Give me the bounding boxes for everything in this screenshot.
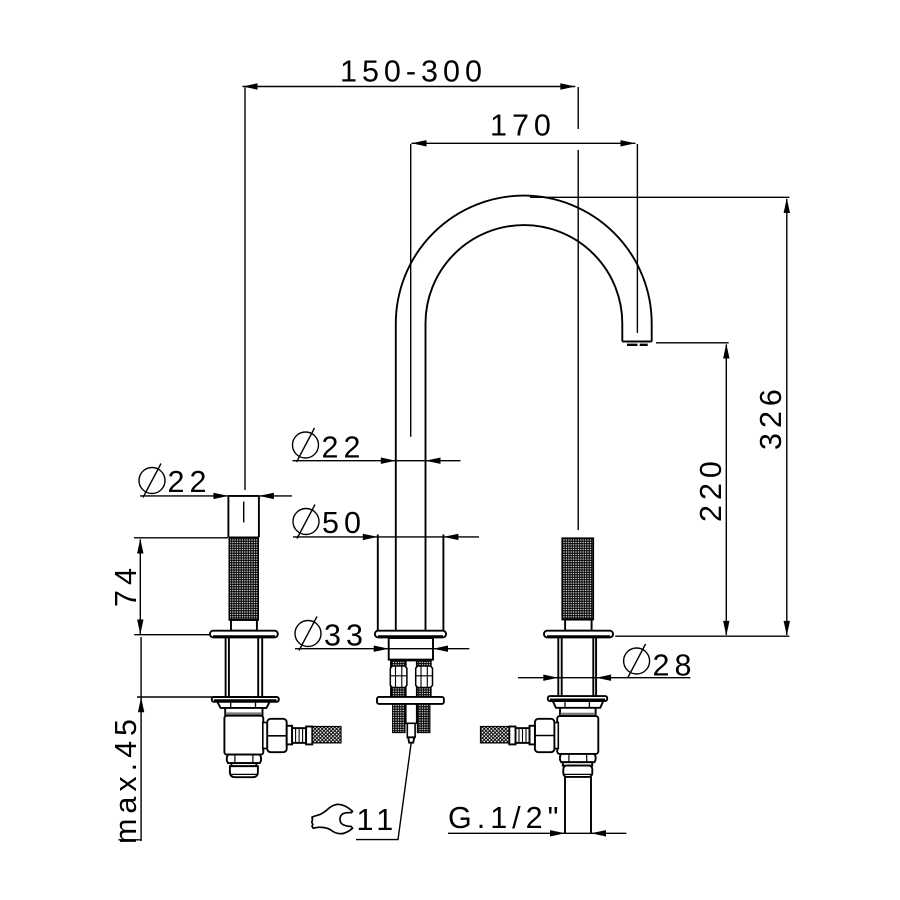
svg-text:max.45: max.45 xyxy=(109,714,143,844)
svg-text:50: 50 xyxy=(322,506,366,540)
svg-text:22: 22 xyxy=(322,431,366,465)
svg-text:G.1/2": G.1/2" xyxy=(448,801,563,835)
svg-text:74: 74 xyxy=(109,563,143,607)
svg-text:11: 11 xyxy=(357,803,399,837)
svg-text:22: 22 xyxy=(168,465,212,499)
svg-text:326: 326 xyxy=(754,384,788,450)
svg-text:150-300: 150-300 xyxy=(340,55,487,89)
svg-text:33: 33 xyxy=(324,619,368,653)
svg-text:220: 220 xyxy=(694,456,728,522)
svg-text:170: 170 xyxy=(490,109,556,143)
svg-text:28: 28 xyxy=(653,649,697,683)
